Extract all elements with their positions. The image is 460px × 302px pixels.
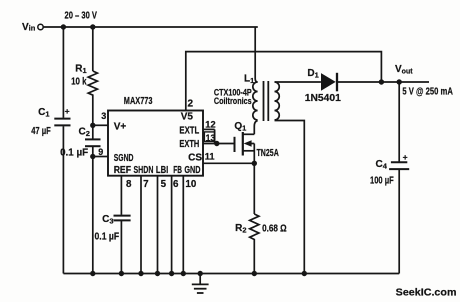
svg-text:L1: L1 — [244, 74, 254, 86]
svg-text:5: 5 — [161, 179, 167, 190]
svg-text:Q1: Q1 — [234, 121, 246, 133]
svg-text:C2: C2 — [79, 126, 90, 138]
svg-text:TN25A: TN25A — [257, 148, 279, 159]
svg-text:FB: FB — [173, 165, 182, 176]
svg-text:Coiltronics: Coiltronics — [214, 96, 252, 106]
svg-text:C4: C4 — [376, 159, 388, 171]
svg-text:1N5401: 1N5401 — [305, 93, 341, 104]
svg-text:CS: CS — [188, 153, 202, 164]
svg-text:0.68 Ω: 0.68 Ω — [262, 224, 287, 235]
svg-text:V5: V5 — [181, 112, 194, 123]
svg-text:7: 7 — [143, 179, 149, 190]
svg-text:13: 13 — [206, 133, 216, 143]
svg-text:Vin: Vin — [22, 22, 36, 33]
svg-text:11: 11 — [205, 152, 215, 162]
svg-text:+: + — [403, 152, 408, 162]
svg-text:5 V @ 250 mA: 5 V @ 250 mA — [402, 87, 453, 98]
svg-text:LBI: LBI — [156, 165, 169, 176]
svg-text:3: 3 — [101, 111, 106, 121]
svg-text:9: 9 — [98, 147, 103, 157]
svg-text:SGND: SGND — [114, 153, 134, 164]
svg-text:GND: GND — [184, 165, 200, 176]
svg-text:V+: V+ — [114, 122, 127, 133]
svg-text:47 µF: 47 µF — [31, 126, 51, 137]
svg-text:10 k: 10 k — [71, 77, 87, 88]
svg-text:C1: C1 — [38, 107, 49, 119]
svg-text:SeekIC.com: SeekIC.com — [396, 287, 457, 299]
svg-text:REF: REF — [114, 165, 131, 176]
svg-text:MAX773: MAX773 — [124, 96, 153, 107]
svg-text:0.1 µF: 0.1 µF — [60, 148, 88, 159]
svg-text:C3: C3 — [102, 214, 113, 226]
svg-text:Vout: Vout — [395, 64, 413, 76]
svg-text:D1: D1 — [307, 68, 318, 80]
svg-text:100 µF: 100 µF — [370, 176, 394, 187]
svg-text:10: 10 — [185, 179, 196, 190]
svg-text:20 – 30 V: 20 – 30 V — [65, 11, 98, 22]
svg-text:2: 2 — [188, 99, 194, 110]
svg-text:R1: R1 — [75, 64, 86, 76]
svg-text:8: 8 — [126, 179, 132, 190]
svg-text:0.1 µF: 0.1 µF — [95, 232, 120, 243]
svg-text:12: 12 — [205, 120, 215, 130]
svg-text:+: + — [65, 106, 70, 116]
svg-text:EXTL: EXTL — [179, 125, 199, 136]
svg-text:EXTH: EXTH — [179, 139, 199, 150]
svg-text:6: 6 — [173, 179, 179, 190]
svg-text:SHDN: SHDN — [134, 165, 154, 176]
svg-text:R2: R2 — [235, 223, 246, 235]
